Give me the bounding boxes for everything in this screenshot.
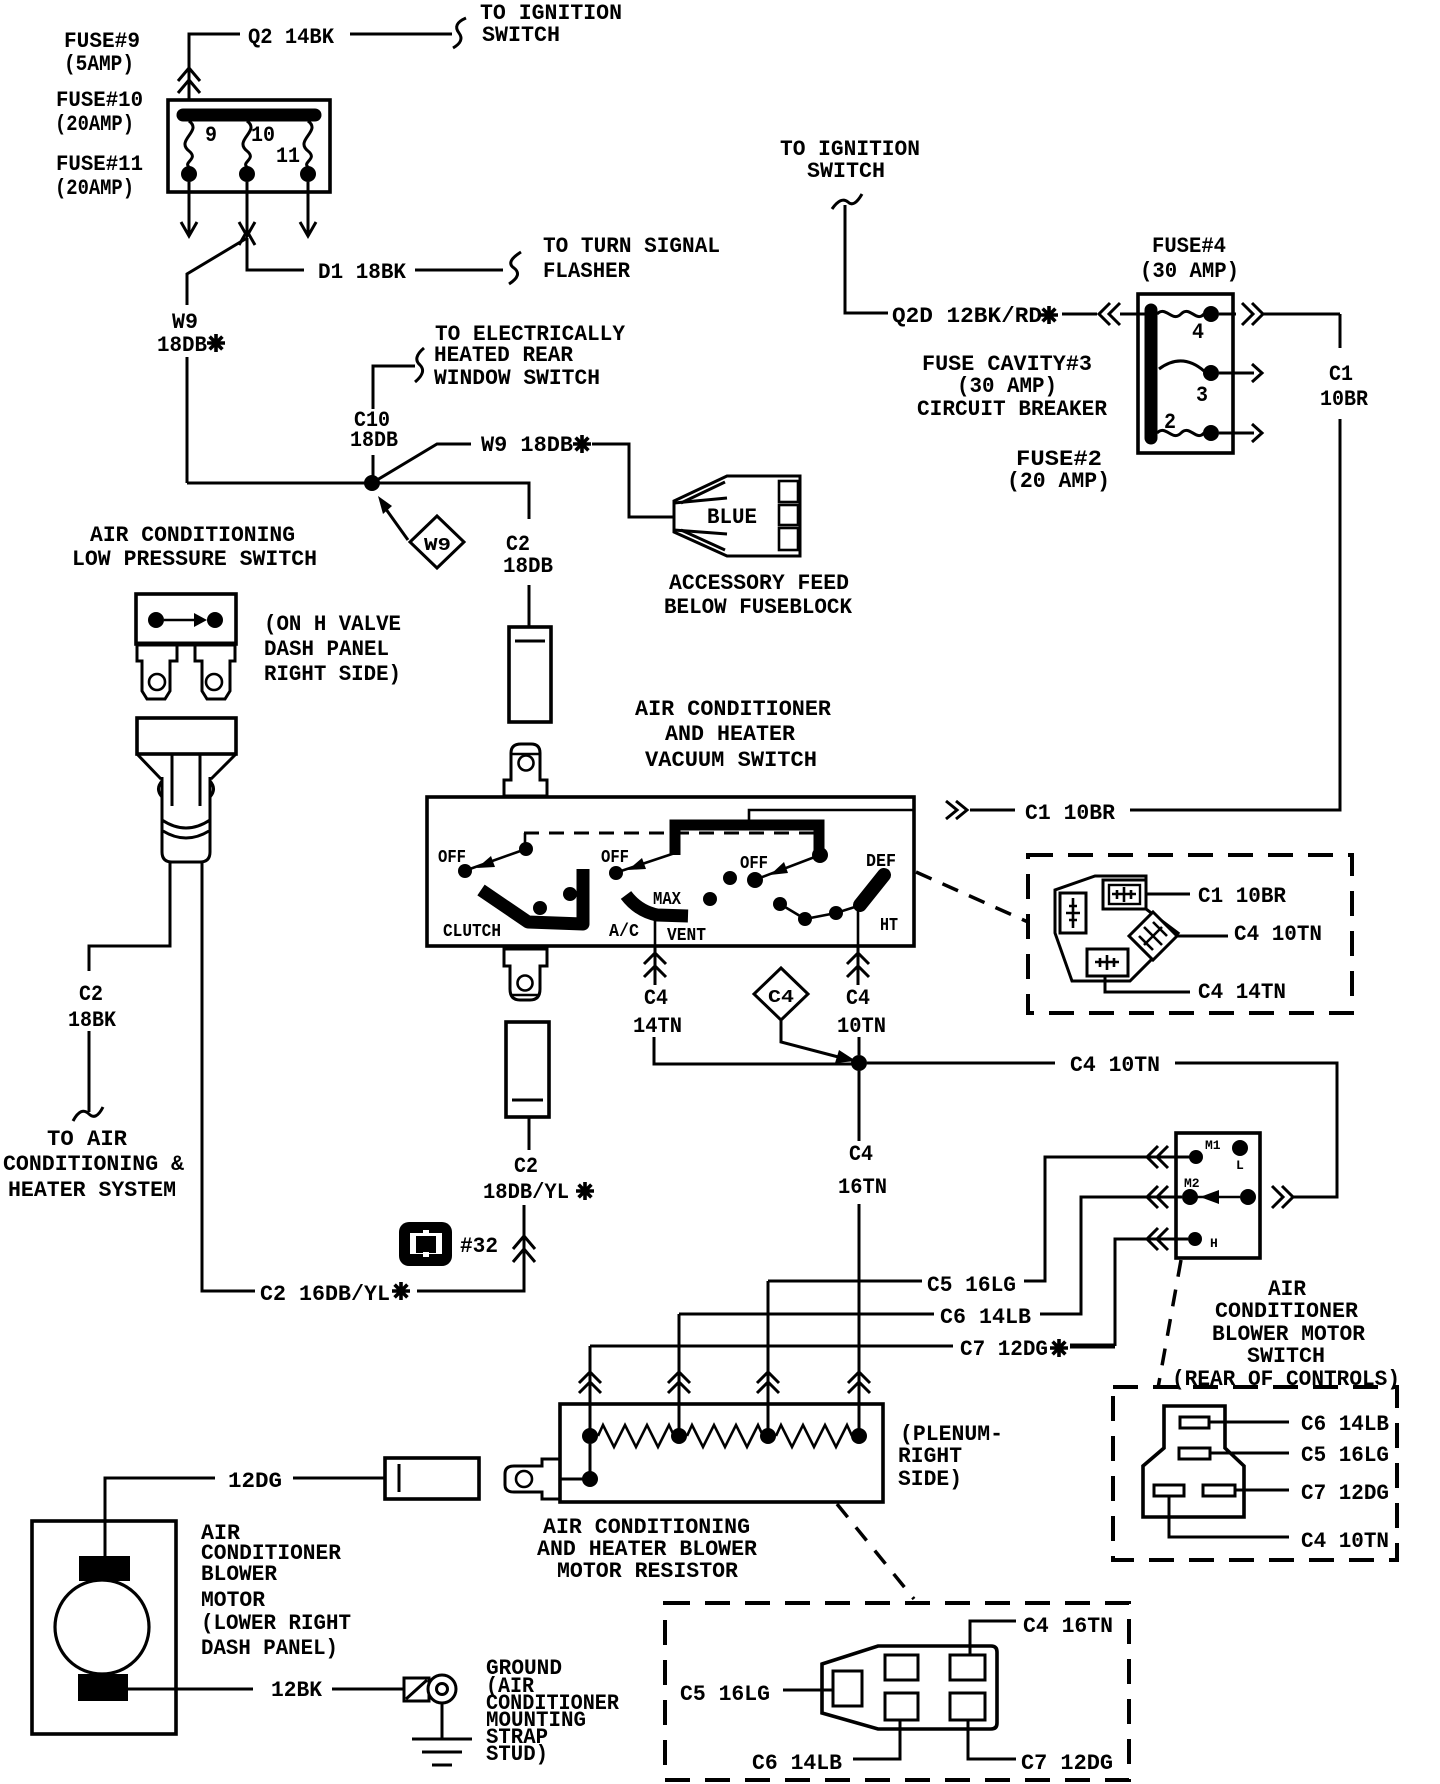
svg-text:SWITCH: SWITCH bbox=[1247, 1344, 1325, 1369]
svg-text:14TN: 14TN bbox=[633, 1014, 682, 1039]
svg-text:A/C: A/C bbox=[609, 922, 639, 942]
svg-text:W9 18DB: W9 18DB bbox=[481, 433, 573, 458]
svg-text:HEATED REAR: HEATED REAR bbox=[434, 343, 574, 368]
detail label C4 10TN upper bbox=[1169, 1496, 1389, 1554]
splice #32 symbol bbox=[399, 1222, 498, 1266]
svg-text:(ON H VALVE: (ON H VALVE bbox=[264, 612, 401, 637]
dashed leader to resistor connector detail bbox=[837, 1504, 914, 1599]
vacuum switch title bbox=[635, 697, 832, 773]
svg-text:4: 4 bbox=[1192, 320, 1204, 345]
svg-text:HEATER SYSTEM: HEATER SYSTEM bbox=[8, 1178, 176, 1203]
resistor caption bbox=[537, 1515, 758, 1584]
vacuum switch thick feed trace bbox=[675, 825, 828, 863]
svg-text:C2: C2 bbox=[514, 1154, 538, 1179]
svg-text:12BK: 12BK bbox=[271, 1678, 323, 1703]
svg-text:CONDITIONING &: CONDITIONING & bbox=[3, 1152, 185, 1177]
blower switch connector body bbox=[1143, 1406, 1244, 1517]
detail label C5 16LG bbox=[680, 1682, 833, 1707]
svg-text:(5AMP): (5AMP) bbox=[64, 52, 134, 77]
fuse 9 output wire and arrow bbox=[181, 182, 197, 236]
C1 connector detail dashed box bbox=[1028, 855, 1352, 1013]
vacuum switch bottom terminal lug bbox=[504, 949, 547, 1000]
low pressure switch connector note bbox=[264, 612, 401, 687]
terminal M2 pair with arrow bbox=[1182, 1176, 1256, 1205]
svg-text:11: 11 bbox=[276, 144, 300, 169]
wire C4 10TN to blower switch bbox=[867, 1053, 1337, 1208]
svg-text:D1 18BK: D1 18BK bbox=[318, 260, 407, 285]
detail label C7 12DG bbox=[968, 1720, 1113, 1776]
terminal L bbox=[1232, 1140, 1248, 1173]
svg-text:BELOW FUSEBLOCK: BELOW FUSEBLOCK bbox=[664, 595, 853, 620]
wire C2 18BK to a/c heater system bbox=[3, 862, 185, 1203]
vacuum switch internal dashed line bbox=[524, 832, 814, 835]
accessory feed caption bbox=[664, 571, 853, 620]
fuse 10 element bbox=[239, 121, 275, 182]
wire W9 18DB to accessory feed bbox=[372, 433, 674, 517]
def ht switch section bbox=[773, 852, 898, 946]
svg-text:(LOWER RIGHT: (LOWER RIGHT bbox=[201, 1611, 351, 1636]
svg-text:C5 16LG: C5 16LG bbox=[680, 1682, 770, 1707]
wire C1 10BR right side bbox=[946, 314, 1369, 826]
svg-text:C4 14TN: C4 14TN bbox=[1198, 980, 1286, 1005]
wire W9 18DB down left bbox=[157, 238, 247, 483]
wire C6 14LB to M2 bbox=[679, 1186, 1182, 1330]
fuse cavity block box bbox=[1138, 294, 1233, 453]
svg-text:C4: C4 bbox=[849, 1142, 873, 1167]
svg-text:FUSE#10: FUSE#10 bbox=[56, 88, 143, 113]
svg-text:C5 16LG: C5 16LG bbox=[927, 1273, 1016, 1298]
low pressure switch mating connector bbox=[137, 718, 236, 862]
svg-text:FUSE#9: FUSE#9 bbox=[64, 29, 140, 54]
svg-text:AIR CONDITIONER: AIR CONDITIONER bbox=[635, 697, 832, 722]
wire C5 16LG to M1 bbox=[768, 1146, 1196, 1298]
label C2 18DB/YL bbox=[483, 1154, 594, 1205]
terminal H bbox=[1188, 1232, 1218, 1251]
svg-text:9: 9 bbox=[205, 123, 217, 148]
C2 18DB/YL inline connector lower bbox=[506, 1022, 549, 1150]
wire D1 18BK to turn signal flasher bbox=[247, 234, 720, 285]
svg-text:VACUUM SWITCH: VACUUM SWITCH bbox=[645, 748, 817, 773]
connector chevrons into fuse cavity bbox=[1099, 303, 1151, 325]
svg-text:SWITCH: SWITCH bbox=[482, 23, 560, 48]
wire 12DG with inline connector bbox=[105, 1458, 479, 1556]
svg-text:16TN: 16TN bbox=[838, 1175, 887, 1200]
svg-text:DASH PANEL): DASH PANEL) bbox=[201, 1636, 338, 1661]
wire with connector chevrons to #32 bbox=[417, 1205, 535, 1291]
ground caption bbox=[486, 1656, 620, 1767]
svg-text:ACCESSORY FEED: ACCESSORY FEED bbox=[669, 571, 849, 596]
wire C4 16TN riser bbox=[838, 1071, 887, 1436]
fuse#4 labels bbox=[1140, 234, 1239, 284]
svg-text:L: L bbox=[1236, 1158, 1244, 1173]
wire C4 14TN below vacuum switch bbox=[633, 946, 853, 1064]
svg-text:C4: C4 bbox=[768, 988, 794, 1008]
svg-text:(30 AMP): (30 AMP) bbox=[1140, 259, 1239, 284]
svg-text:C4 10TN: C4 10TN bbox=[1070, 1053, 1160, 1078]
air conditioning low pressure switch labels bbox=[72, 523, 317, 572]
detail label C6 14LB bbox=[752, 1720, 900, 1776]
svg-text:VENT: VENT bbox=[667, 926, 706, 946]
svg-text:H: H bbox=[1210, 1236, 1218, 1251]
vacuum switch top terminal lug bbox=[504, 744, 547, 796]
wire C2 16DB/YL from low pressure switch bbox=[202, 862, 255, 1291]
fuse block box bbox=[168, 100, 330, 192]
svg-text:W9: W9 bbox=[424, 536, 451, 556]
riser C7 12DG to resistor bbox=[579, 1346, 601, 1436]
fuse 11 output wire and arrow bbox=[300, 182, 316, 236]
svg-text:18DB: 18DB bbox=[503, 554, 553, 579]
svg-text:C4 10TN: C4 10TN bbox=[1301, 1529, 1389, 1554]
resistor connector detail dashed box bbox=[665, 1603, 1129, 1780]
svg-text:FUSE#4: FUSE#4 bbox=[1152, 234, 1226, 259]
resistor connector body bbox=[822, 1646, 997, 1729]
svg-text:C7 12DG: C7 12DG bbox=[960, 1337, 1048, 1362]
ground stud and symbol bbox=[404, 1675, 472, 1765]
blower motor switch box bbox=[1176, 1133, 1260, 1258]
detail label C7 12DG upper bbox=[1235, 1481, 1389, 1506]
svg-text:Q2D 12BK/RD: Q2D 12BK/RD bbox=[892, 304, 1042, 329]
svg-text:(30 AMP): (30 AMP) bbox=[957, 374, 1057, 399]
wire C4 10TN below vacuum switch bbox=[837, 946, 886, 1055]
connector chevron under fuse10 bbox=[239, 231, 255, 245]
fuse labels left column bbox=[55, 29, 143, 201]
blower motor switch caption bbox=[1172, 1277, 1400, 1392]
svg-text:WINDOW SWITCH: WINDOW SWITCH bbox=[434, 366, 600, 391]
svg-text:MOTOR: MOTOR bbox=[201, 1588, 266, 1613]
fuse cavity bus bar bbox=[1145, 310, 1158, 438]
svg-text:BLOWER: BLOWER bbox=[201, 1562, 278, 1587]
svg-text:C1 10BR: C1 10BR bbox=[1198, 884, 1287, 909]
vacuum switch C1 pickup wire bbox=[749, 810, 914, 820]
plug left bbox=[1060, 893, 1086, 933]
blower motor caption bbox=[201, 1521, 351, 1661]
svg-text:MOTOR RESISTOR: MOTOR RESISTOR bbox=[557, 1559, 739, 1584]
svg-text:SWITCH: SWITCH bbox=[807, 159, 885, 184]
svg-text:TO AIR: TO AIR bbox=[47, 1127, 128, 1152]
svg-text:3: 3 bbox=[1196, 383, 1208, 408]
wire 12BK to ground bbox=[128, 1678, 404, 1703]
svg-text:18DB/YL: 18DB/YL bbox=[483, 1180, 569, 1205]
svg-text:CLUTCH: CLUTCH bbox=[443, 922, 501, 942]
fuse 9 element bbox=[181, 121, 217, 182]
svg-text:C4: C4 bbox=[644, 986, 668, 1011]
svg-text:W9: W9 bbox=[172, 310, 198, 335]
svg-text:RIGHT: RIGHT bbox=[898, 1444, 962, 1469]
svg-text:C4 16TN: C4 16TN bbox=[1023, 1614, 1113, 1639]
svg-text:FLASHER: FLASHER bbox=[543, 259, 631, 284]
wire C10 to heated rear window switch bbox=[373, 322, 626, 409]
svg-text:CONDITIONER: CONDITIONER bbox=[1215, 1299, 1359, 1324]
svg-text:18BK: 18BK bbox=[68, 1008, 117, 1033]
svg-text:DASH PANEL: DASH PANEL bbox=[264, 637, 389, 662]
svg-text:HT: HT bbox=[880, 916, 898, 936]
svg-text:LOW PRESSURE SWITCH: LOW PRESSURE SWITCH bbox=[72, 547, 317, 572]
blower motor bbox=[55, 1556, 149, 1701]
riser C6 14LB to resistor bbox=[668, 1314, 690, 1436]
terminal M1 bbox=[1189, 1138, 1221, 1164]
svg-text:CIRCUIT BREAKER: CIRCUIT BREAKER bbox=[917, 397, 1108, 422]
resistor ground lead and plug bbox=[505, 1444, 598, 1499]
low pressure switch terminals bbox=[137, 645, 235, 699]
wire Q2D 12BK/RD from ignition switch bbox=[780, 137, 1097, 329]
svg-text:RIGHT SIDE): RIGHT SIDE) bbox=[264, 662, 401, 687]
svg-text:TO TURN SIGNAL: TO TURN SIGNAL bbox=[543, 234, 720, 259]
svg-text:FUSE#11: FUSE#11 bbox=[56, 152, 143, 177]
fuse cavity captions bbox=[917, 352, 1110, 494]
dashed leader from vacuum switch bbox=[916, 872, 1028, 922]
C2 18DB inline connector upper bbox=[509, 627, 551, 722]
fuse 2 element pin 2 bbox=[1157, 410, 1262, 442]
W9 splice diamond bbox=[378, 496, 464, 568]
label C2 16DB/YL bbox=[260, 1282, 410, 1307]
blower switch connector detail dashed box bbox=[1113, 1387, 1397, 1560]
wire C7 12DG to H bbox=[590, 1228, 1188, 1362]
svg-text:(20AMP): (20AMP) bbox=[55, 176, 134, 201]
svg-text:SIDE): SIDE) bbox=[898, 1467, 962, 1492]
center off switch section bbox=[703, 854, 820, 906]
svg-text:C4: C4 bbox=[846, 986, 870, 1011]
svg-text:18DB: 18DB bbox=[157, 333, 207, 358]
junction node C10 bbox=[364, 475, 380, 491]
svg-text:C6 14LB: C6 14LB bbox=[940, 1305, 1031, 1330]
svg-text:C1: C1 bbox=[1329, 362, 1353, 387]
svg-text:18DB: 18DB bbox=[350, 428, 398, 453]
svg-text:M2: M2 bbox=[1184, 1176, 1200, 1191]
svg-text:C4 10TN: C4 10TN bbox=[1234, 922, 1322, 947]
splice diamond C4 bbox=[754, 968, 856, 1063]
svg-text:C7 12DG: C7 12DG bbox=[1301, 1481, 1389, 1506]
circuit breaker element pin 3 bbox=[1159, 361, 1262, 408]
svg-text:AIR CONDITIONING: AIR CONDITIONING bbox=[90, 523, 295, 548]
a/c vent switch section bbox=[601, 848, 706, 946]
blower motor box bbox=[32, 1521, 176, 1734]
detail label C6 14LB upper bbox=[1209, 1412, 1389, 1437]
plug C1 10BR bbox=[1103, 880, 1287, 909]
fuse 4 element pin 4 bbox=[1157, 303, 1340, 345]
low pressure switch body bbox=[136, 594, 236, 644]
svg-text:C5 16LG: C5 16LG bbox=[1301, 1443, 1389, 1468]
svg-text:OFF: OFF bbox=[601, 848, 629, 868]
riser C5 16LG to resistor bbox=[757, 1281, 779, 1436]
svg-text:Q2 14BK: Q2 14BK bbox=[248, 25, 335, 50]
resistor network bbox=[582, 1425, 867, 1447]
plug C4 10TN rotated bbox=[1129, 912, 1322, 960]
svg-text:10TN: 10TN bbox=[837, 1014, 886, 1039]
fuse 11 element bbox=[276, 121, 316, 182]
svg-text:MAX: MAX bbox=[653, 890, 681, 910]
svg-text:C6 14LB: C6 14LB bbox=[752, 1751, 842, 1776]
svg-text:#32: #32 bbox=[460, 1234, 498, 1259]
node C10 18DB label bbox=[350, 408, 398, 483]
svg-text:10: 10 bbox=[251, 123, 275, 148]
svg-text:12DG: 12DG bbox=[228, 1469, 282, 1494]
resistor location note bbox=[898, 1422, 1003, 1492]
fuse 10 output wire and arrow bbox=[239, 182, 255, 236]
svg-text:OFF: OFF bbox=[740, 854, 768, 874]
dashed leader to connector detail bbox=[1158, 1260, 1181, 1388]
svg-text:AND HEATER: AND HEATER bbox=[665, 722, 796, 747]
wire C2 18DB from junction bbox=[187, 483, 553, 627]
svg-text:M1: M1 bbox=[1205, 1138, 1221, 1153]
svg-text:STUD): STUD) bbox=[486, 1742, 548, 1767]
detail label C4 16TN bbox=[970, 1614, 1113, 1655]
BLUE accessory feed connector bbox=[674, 476, 800, 556]
detail label C5 16LG upper bbox=[1210, 1443, 1389, 1468]
svg-text:10BR: 10BR bbox=[1320, 387, 1369, 412]
clutch switch section bbox=[438, 833, 583, 942]
svg-text:BLUE: BLUE bbox=[707, 505, 757, 530]
svg-text:C1 10BR: C1 10BR bbox=[1025, 801, 1116, 826]
svg-text:(20 AMP): (20 AMP) bbox=[1007, 469, 1110, 494]
plug C4 14TN bbox=[1087, 949, 1286, 1005]
vacuum switch box bbox=[427, 797, 914, 946]
svg-text:C2: C2 bbox=[79, 982, 103, 1007]
svg-text:(20AMP): (20AMP) bbox=[55, 112, 134, 137]
svg-text:C2 16DB/YL: C2 16DB/YL bbox=[260, 1282, 390, 1307]
connector chevron on fuse#9 feed bbox=[178, 68, 200, 93]
svg-text:C7 12DG: C7 12DG bbox=[1021, 1751, 1113, 1776]
blower motor resistor box bbox=[560, 1404, 883, 1502]
fuse block bus bar bbox=[183, 109, 315, 122]
junction node C4 10TN bbox=[851, 1055, 867, 1071]
wire Q2 14BK from fuse#9 to ignition switch bbox=[189, 1, 622, 100]
svg-text:C6 14LB: C6 14LB bbox=[1301, 1412, 1389, 1437]
C1 connector housing bbox=[1055, 876, 1178, 981]
